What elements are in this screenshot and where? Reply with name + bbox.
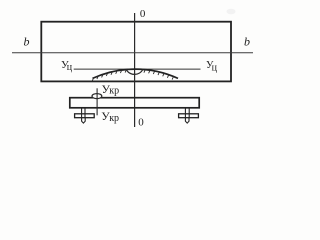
svg-text:0: 0 [138, 116, 144, 128]
svg-text:b: b [244, 35, 250, 49]
svg-text:b: b [24, 35, 30, 49]
svg-text:ц: ц [212, 62, 218, 73]
svg-text:кр: кр [109, 85, 119, 96]
svg-text:0: 0 [140, 8, 146, 20]
svg-text:ц: ц [67, 62, 73, 73]
svg-text:кр: кр [109, 113, 119, 124]
